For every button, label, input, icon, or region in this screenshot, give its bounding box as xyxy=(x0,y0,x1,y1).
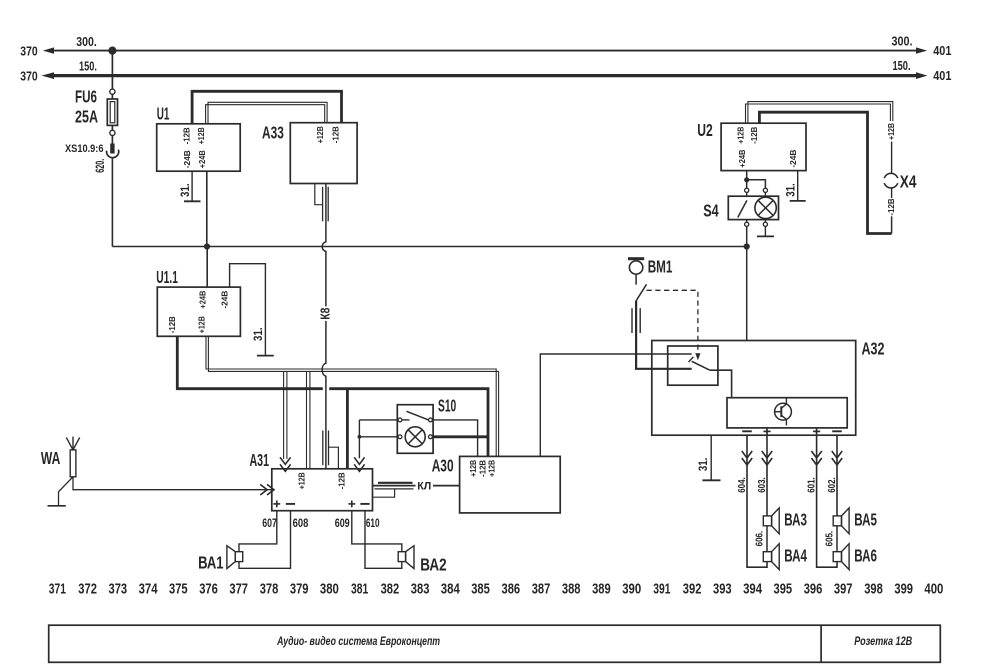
ground 31. under U1 xyxy=(184,171,201,201)
svg-text:S10: S10 xyxy=(438,396,456,416)
wire S10 switch to A30 +12V xyxy=(432,420,477,457)
speaker BA3 xyxy=(763,508,779,534)
svg-text:+12В: +12В xyxy=(197,127,206,144)
svg-text:391: 391 xyxy=(653,582,670,598)
arrow on wire 602 xyxy=(832,451,842,465)
junction +24V bus / U1 xyxy=(204,243,210,249)
svg-text:394: 394 xyxy=(743,582,763,598)
svg-text:Аудио- видео система Евроконце: Аудио- видео система Евроконцепт xyxy=(276,636,440,648)
svg-text:383: 383 xyxy=(411,582,430,598)
wire A31 610 to BA2 xyxy=(365,511,402,569)
wire S10 left pins to A31 arrow xyxy=(359,420,398,458)
svg-text:Х4: Х4 xyxy=(900,172,917,192)
svg-text:606.: 606. xyxy=(755,531,766,547)
ground under S4 xyxy=(757,235,774,237)
block A31 xyxy=(272,469,373,511)
arrow into A31 pin5 xyxy=(354,457,364,471)
svg-text:Розетка 12В: Розетка 12В xyxy=(854,636,912,648)
speaker BA6 xyxy=(833,544,849,570)
amplifier box in A32 xyxy=(727,398,847,428)
fuse FU6 25A xyxy=(107,89,117,135)
svg-text:374: 374 xyxy=(139,582,159,598)
pin label A31 minus1 xyxy=(286,503,295,505)
coax shield above A31 xyxy=(323,431,339,469)
svg-text:-24В: -24В xyxy=(221,291,230,309)
title block frame xyxy=(49,625,941,662)
svg-text:31.: 31. xyxy=(180,183,192,197)
coax shield under A33 xyxy=(315,184,328,222)
block U1.1 xyxy=(157,287,240,336)
speaker BA4 xyxy=(763,544,779,570)
svg-text:372: 372 xyxy=(78,582,97,598)
pin label A31 plus1 xyxy=(273,501,280,508)
svg-text:377: 377 xyxy=(229,582,248,598)
wire U1.1 +24V to bus xyxy=(206,247,208,288)
svg-text:XS10.9:6: XS10.9:6 xyxy=(65,143,104,155)
speaker BA1 xyxy=(227,546,243,569)
svg-text:399: 399 xyxy=(894,582,913,598)
svg-text:-24В: -24В xyxy=(183,150,192,168)
svg-text:+12В: +12В xyxy=(737,127,746,144)
svg-text:-12В: -12В xyxy=(338,472,347,489)
svg-text:+12В: +12В xyxy=(197,316,206,333)
svg-text:К8: К8 xyxy=(318,308,332,320)
connector marks on BM1 wire xyxy=(632,308,640,333)
svg-text:396: 396 xyxy=(804,582,823,598)
wire S4 lamp to ground xyxy=(764,226,766,236)
ground 31. under U2 xyxy=(790,200,806,202)
block A30 xyxy=(460,456,561,513)
svg-text:150.: 150. xyxy=(892,58,910,73)
pin label A32 minus2 xyxy=(832,430,842,432)
svg-text:300.: 300. xyxy=(892,33,913,48)
block U2 xyxy=(721,123,806,170)
svg-text:620.: 620. xyxy=(95,159,107,173)
svg-text:378: 378 xyxy=(260,582,279,598)
pin label A31 plus2 xyxy=(348,501,355,508)
svg-text:31.: 31. xyxy=(785,183,797,197)
junction +24V bus / S4-A32 xyxy=(744,243,750,249)
junction bus300/FU6 xyxy=(108,47,116,55)
arrow on wire 601 xyxy=(811,451,821,465)
svg-text:ВМ1: ВМ1 xyxy=(648,257,673,277)
svg-text:379: 379 xyxy=(290,582,309,598)
ground 31. right of U1.1 xyxy=(257,355,274,357)
wire A30 to A32 xyxy=(540,354,691,456)
svg-text:ВА6: ВА6 xyxy=(854,545,877,565)
svg-text:КЛ: КЛ xyxy=(417,481,431,493)
wire 603 A32 to BA3 xyxy=(766,435,768,516)
wire 605 BA5 to BA6 xyxy=(836,526,838,552)
wire bus 150 xyxy=(42,72,928,79)
wire U1 +12V to A33 +12V (double) xyxy=(206,105,325,124)
svg-text:ВА2: ВА2 xyxy=(420,554,447,574)
pin label A32 plus1 xyxy=(763,428,770,435)
svg-text:FU6: FU6 xyxy=(75,87,97,107)
wire 601 A32 to BA6 xyxy=(817,435,837,567)
svg-text:U1.1: U1.1 xyxy=(156,267,178,287)
svg-text:+12В: +12В xyxy=(298,472,307,489)
wire K8 antenna lead xyxy=(322,184,326,307)
svg-text:-12В: -12В xyxy=(182,127,191,144)
svg-text:370: 370 xyxy=(20,68,37,83)
relay box in A32 xyxy=(668,346,718,385)
ground under WA xyxy=(48,477,74,506)
svg-text:608: 608 xyxy=(293,516,309,530)
speaker BA5 xyxy=(833,508,849,534)
wire +24V distribution bus xyxy=(112,246,746,248)
wire U1 -12V to A33 -12V (thick) xyxy=(192,91,341,124)
svg-text:371: 371 xyxy=(49,582,66,598)
svg-text:U2: U2 xyxy=(697,120,713,140)
svg-text:300.: 300. xyxy=(76,34,97,49)
svg-text:А30: А30 xyxy=(432,456,454,476)
svg-text:WA: WA xyxy=(41,448,61,468)
wire WA to A31 xyxy=(73,477,272,490)
antenna WA xyxy=(66,437,79,477)
block A32 xyxy=(652,341,856,436)
svg-text:+12В: +12В xyxy=(887,123,896,140)
wire U1.1 -12V to A30 (thick, gap at K8 crossing) xyxy=(177,336,488,456)
svg-text:607: 607 xyxy=(262,516,277,530)
svg-text:375: 375 xyxy=(169,582,188,598)
svg-text:393: 393 xyxy=(713,582,732,598)
microphone BM1 xyxy=(628,257,647,300)
wire A32 ground xyxy=(710,435,712,480)
wire S4 to A32 xyxy=(746,226,748,340)
transistor symbol xyxy=(775,398,792,426)
wire branch -12V to A31 -12V pin (thick) xyxy=(346,389,349,469)
svg-text:-24В: -24В xyxy=(789,150,798,168)
wire bus 300 xyxy=(43,47,927,53)
node row reference numbers 371-400 xyxy=(49,582,944,598)
relay fixed contact tick xyxy=(689,357,694,362)
svg-text:395: 395 xyxy=(774,582,793,598)
svg-text:603.: 603. xyxy=(757,477,768,493)
pin label A32 plus2 xyxy=(813,428,820,435)
svg-text:+12В: +12В xyxy=(488,460,497,477)
svg-text:397: 397 xyxy=(834,582,853,598)
wire 606 BA3 to BA4 xyxy=(766,526,768,552)
svg-text:31.: 31. xyxy=(253,327,265,341)
switch S10 xyxy=(397,405,433,454)
wire U2 -12V to X4 (thick) xyxy=(759,112,891,233)
svg-text:-12В: -12В xyxy=(887,198,896,215)
block U1 xyxy=(157,124,241,171)
pin label A31 minus2 xyxy=(360,503,369,505)
wire 604 A32 to BA4 xyxy=(747,435,767,567)
svg-text:602.: 602. xyxy=(827,477,838,493)
svg-text:389: 389 xyxy=(592,582,611,598)
wire U1.1 -24V to ground xyxy=(230,264,266,356)
svg-text:-12В: -12В xyxy=(750,127,759,144)
wire relay output to amp xyxy=(710,370,732,398)
wire branch +12V to A31 arrow pin (double) xyxy=(284,371,287,459)
junction S10 left xyxy=(358,435,362,439)
wire A31 607 to BA1 xyxy=(239,511,277,552)
wire A31 608 to BA1 xyxy=(239,511,291,569)
relay blade xyxy=(692,361,710,370)
svg-text:-12В: -12В xyxy=(478,460,487,477)
svg-text:150.: 150. xyxy=(79,58,97,73)
arrow into A31 pin1 xyxy=(280,457,291,471)
arrow into A31 left xyxy=(260,484,274,495)
svg-text:610: 610 xyxy=(366,516,380,530)
svg-text:+12В: +12В xyxy=(316,126,325,143)
wire A31 609 to BA2 xyxy=(352,511,402,552)
svg-text:604.: 604. xyxy=(737,477,748,493)
svg-text:25A: 25A xyxy=(75,107,98,127)
svg-text:381: 381 xyxy=(351,582,368,598)
svg-text:380: 380 xyxy=(320,582,339,598)
svg-text:+24В: +24В xyxy=(738,150,747,168)
pin label A32 minus1 xyxy=(742,430,752,432)
svg-text:-12В: -12В xyxy=(332,126,341,143)
junction U2 +24V xyxy=(744,177,749,182)
svg-text:401: 401 xyxy=(933,43,951,58)
svg-text:388: 388 xyxy=(562,582,581,598)
svg-text:384: 384 xyxy=(441,582,461,598)
svg-text:ВА1: ВА1 xyxy=(198,553,224,573)
switch S4 xyxy=(728,188,778,226)
svg-text:609: 609 xyxy=(335,516,350,530)
svg-text:А32: А32 xyxy=(862,339,885,359)
block A33 xyxy=(290,123,357,184)
svg-text:+24В: +24В xyxy=(198,291,207,309)
wire S10 lamp to -12V (thick) xyxy=(432,435,488,438)
svg-text:400: 400 xyxy=(924,582,943,598)
svg-text:S4: S4 xyxy=(703,200,719,220)
wire KL A31 to A30 shielded xyxy=(373,483,460,497)
svg-text:387: 387 xyxy=(532,582,551,598)
wire 620 xyxy=(111,159,113,247)
svg-text:390: 390 xyxy=(622,582,641,598)
svg-text:ВА3: ВА3 xyxy=(784,510,807,530)
wire 602 A32 to BA5 xyxy=(836,435,838,516)
wire BM1 to A32 relay xyxy=(636,301,692,369)
svg-text:ВА5: ВА5 xyxy=(854,510,877,530)
svg-text:386: 386 xyxy=(502,582,521,598)
wire U1.1 +12V to A30 (double) xyxy=(206,336,499,456)
wire U1 +24V down to bus xyxy=(206,171,208,246)
wire bus300 to fuse FU6 xyxy=(111,51,113,90)
svg-text:-12В: -12В xyxy=(168,316,177,333)
arrow on wire 604 xyxy=(742,451,752,465)
svg-text:373: 373 xyxy=(109,582,128,598)
svg-text:392: 392 xyxy=(683,582,702,598)
wire U2 +12V to X4 (double) xyxy=(746,102,893,174)
connector X4 xyxy=(884,173,898,188)
arrow on wire 603 xyxy=(762,451,772,465)
wire U2 +24V to S4 xyxy=(747,171,766,189)
svg-text:376: 376 xyxy=(199,582,218,598)
dashed control link BM1 to relay xyxy=(647,290,701,360)
title block divider xyxy=(820,625,822,662)
svg-text:370: 370 xyxy=(20,43,37,58)
svg-text:U1: U1 xyxy=(157,104,170,124)
connector XS10.9:6 xyxy=(107,136,119,158)
wire U2 -24V to ground xyxy=(797,171,799,201)
svg-text:385: 385 xyxy=(471,582,490,598)
ground 31. under A32 xyxy=(702,479,720,481)
speaker BA2 xyxy=(398,546,414,569)
svg-text:А33: А33 xyxy=(262,122,284,142)
svg-text:382: 382 xyxy=(381,582,400,598)
svg-text:31.: 31. xyxy=(698,458,710,472)
svg-text:401: 401 xyxy=(933,68,951,83)
svg-text:+24В: +24В xyxy=(198,150,207,168)
svg-text:601.: 601. xyxy=(807,477,818,493)
svg-text:ВА4: ВА4 xyxy=(784,545,807,565)
svg-text:605.: 605. xyxy=(825,531,836,547)
svg-text:398: 398 xyxy=(864,582,883,598)
svg-text:А31: А31 xyxy=(250,450,270,470)
svg-text:+12В: +12В xyxy=(469,460,478,477)
wire branch +12V to A31 +12V pin (double) xyxy=(307,371,310,468)
